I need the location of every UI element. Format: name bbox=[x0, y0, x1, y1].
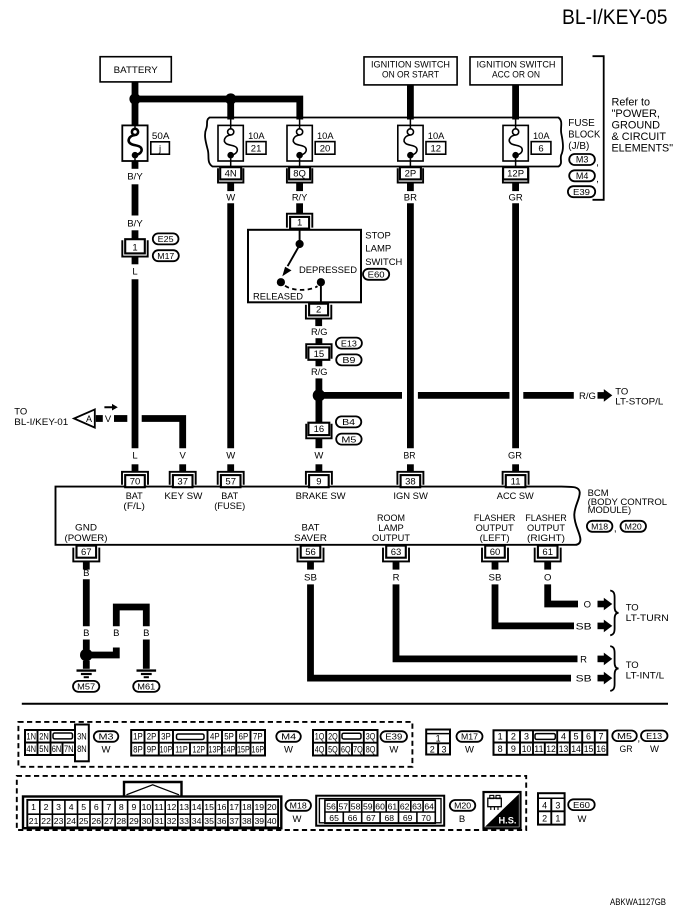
svg-text:GROUND: GROUND bbox=[612, 120, 661, 132]
wire ignition ON/START to fuse 12 bbox=[407, 85, 414, 120]
connector ref oval E39 index bbox=[381, 731, 408, 742]
connector 8Q fuse block output bbox=[287, 167, 312, 182]
connector ref oval B9 bbox=[336, 354, 361, 365]
svg-text:6: 6 bbox=[94, 802, 99, 812]
wire BR column bbox=[407, 203, 414, 448]
wire V dash segment bbox=[114, 415, 127, 422]
arrow SB to LT-TURN bbox=[598, 620, 613, 633]
svg-text:21: 21 bbox=[251, 144, 262, 155]
stop lamp DEPRESSED contact dot bbox=[317, 278, 325, 286]
wire B to ground dot bbox=[83, 640, 90, 650]
svg-text:24: 24 bbox=[66, 816, 76, 826]
fuse 10A 12 bbox=[398, 119, 423, 167]
svg-text:,: , bbox=[614, 524, 617, 535]
svg-text:63: 63 bbox=[412, 801, 422, 811]
svg-text:FUSE: FUSE bbox=[568, 117, 595, 129]
label R/Y under 8Q bbox=[292, 192, 308, 203]
svg-text:V: V bbox=[180, 451, 187, 462]
svg-text:W: W bbox=[578, 814, 587, 825]
svg-text:IGN SW: IGN SW bbox=[393, 491, 428, 501]
svg-text:LT-STOP/L: LT-STOP/L bbox=[615, 397, 663, 408]
svg-text:"POWER,: "POWER, bbox=[612, 108, 661, 120]
ground ref oval M57 bbox=[73, 681, 99, 692]
svg-text:30: 30 bbox=[142, 816, 152, 826]
wire W column bbox=[227, 203, 234, 448]
off-page arrow A triangle bbox=[74, 409, 95, 427]
svg-text:65: 65 bbox=[329, 813, 339, 823]
label SB at int arrow bbox=[576, 674, 592, 685]
svg-text:BRAKE SW: BRAKE SW bbox=[296, 491, 346, 501]
label STOP LAMP SWITCH bbox=[365, 230, 402, 267]
wire R output from 63 bbox=[396, 584, 578, 659]
label TO LT-INT/L bbox=[626, 660, 665, 682]
svg-text:W: W bbox=[314, 451, 323, 462]
label GR under 12P bbox=[508, 192, 522, 203]
svg-text:4: 4 bbox=[561, 732, 566, 742]
svg-text:14: 14 bbox=[571, 744, 581, 754]
ignition switch ACC/ON source box bbox=[470, 57, 562, 85]
svg-text:14P: 14P bbox=[223, 744, 236, 754]
svg-text:67: 67 bbox=[81, 547, 92, 558]
svg-text:LT-INT/L: LT-INT/L bbox=[626, 671, 665, 682]
svg-text:68: 68 bbox=[385, 813, 395, 823]
svg-text:(LEFT): (LEFT) bbox=[480, 533, 510, 543]
BCM terminal 70 bbox=[122, 464, 148, 487]
svg-text:L: L bbox=[132, 267, 137, 278]
wire ignition ACC/ON to fuse 6 bbox=[512, 85, 519, 120]
svg-text:11: 11 bbox=[154, 802, 164, 812]
svg-text:5Q: 5Q bbox=[328, 744, 338, 754]
svg-text:BR: BR bbox=[404, 192, 417, 203]
svg-text:1Q: 1Q bbox=[315, 732, 325, 742]
BCM terminal 57 bbox=[218, 464, 244, 487]
wire O output from 61 bbox=[548, 584, 578, 604]
svg-text:B/Y: B/Y bbox=[127, 219, 143, 230]
connector ref oval M4 bbox=[569, 170, 595, 181]
svg-text:59: 59 bbox=[363, 801, 373, 811]
svg-text:E13: E13 bbox=[341, 338, 357, 348]
svg-text:70: 70 bbox=[130, 477, 141, 488]
stop lamp contact dot pin1 bbox=[296, 240, 304, 248]
svg-text:15: 15 bbox=[204, 802, 214, 812]
svg-text:OUTPUT: OUTPUT bbox=[372, 533, 410, 543]
svg-text:1: 1 bbox=[436, 733, 441, 743]
label W under E13 bbox=[650, 744, 659, 755]
svg-text:13P: 13P bbox=[209, 744, 222, 754]
svg-text:69: 69 bbox=[403, 813, 413, 823]
BCM terminal 61 bbox=[535, 546, 561, 570]
BCM terminal 9 bbox=[306, 464, 332, 487]
svg-text:63: 63 bbox=[391, 547, 402, 558]
svg-text:60: 60 bbox=[490, 547, 501, 558]
wire junction to connector 16 bbox=[315, 395, 322, 423]
svg-text:M4: M4 bbox=[576, 171, 589, 181]
label 10A fuse6 bbox=[533, 131, 550, 142]
svg-text:21: 21 bbox=[29, 816, 39, 826]
dashed detail box row1 bbox=[18, 722, 412, 767]
label B/Y lower bbox=[127, 219, 143, 230]
H.S. view direction logo bbox=[484, 792, 521, 828]
svg-text:GR: GR bbox=[620, 744, 633, 755]
svg-text:E25: E25 bbox=[158, 234, 174, 244]
ground symbol M57 bbox=[77, 671, 97, 678]
svg-text:BAT: BAT bbox=[302, 523, 320, 533]
wire stub below 4N bbox=[227, 183, 234, 192]
svg-text:27: 27 bbox=[104, 816, 114, 826]
connector 15 E13/B9 bbox=[306, 344, 331, 360]
svg-text:34: 34 bbox=[192, 816, 202, 826]
label O under 61 bbox=[544, 572, 551, 583]
svg-text:4N: 4N bbox=[225, 168, 237, 179]
svg-text:25: 25 bbox=[79, 816, 89, 826]
svg-text:2Q: 2Q bbox=[328, 732, 338, 742]
svg-text:9: 9 bbox=[131, 802, 136, 812]
stop lamp switch pin 2 bbox=[306, 304, 331, 319]
svg-text:32: 32 bbox=[167, 816, 177, 826]
svg-text:W: W bbox=[293, 814, 302, 825]
label W at BCM term57 bbox=[226, 451, 235, 462]
label 50A bbox=[152, 131, 170, 142]
label V at BCM bbox=[180, 451, 187, 462]
connector ref oval M5 index bbox=[612, 731, 637, 742]
svg-text:STOP: STOP bbox=[365, 230, 391, 241]
svg-text:BL-I/KEY-05: BL-I/KEY-05 bbox=[562, 6, 668, 29]
label W under M4 bbox=[284, 745, 293, 756]
svg-text:TO: TO bbox=[626, 660, 639, 671]
wire R/G branch segment 1 bbox=[319, 392, 402, 399]
svg-text:A: A bbox=[86, 414, 92, 424]
svg-text:10P: 10P bbox=[160, 744, 173, 754]
svg-text:61: 61 bbox=[388, 801, 398, 811]
arrow O to LT-TURN bbox=[598, 598, 613, 611]
svg-text:31: 31 bbox=[154, 816, 164, 826]
label 10A fuse20 bbox=[317, 131, 334, 142]
svg-text:W: W bbox=[465, 745, 474, 756]
label GND (POWER) bbox=[65, 523, 108, 543]
wire dot to M57 ground bbox=[83, 661, 90, 669]
label FLASHER OUTPUT (RIGHT) bbox=[525, 513, 567, 543]
BCM terminal 67 bbox=[73, 546, 99, 570]
svg-text:M20: M20 bbox=[454, 801, 471, 811]
label GR at BCM bbox=[508, 451, 522, 462]
direction arrow over V bbox=[104, 404, 117, 411]
svg-text:28: 28 bbox=[117, 816, 127, 826]
svg-text:3: 3 bbox=[555, 800, 560, 810]
svg-text:,: , bbox=[596, 174, 599, 185]
svg-text:22: 22 bbox=[41, 816, 51, 826]
label W under M18 bbox=[293, 814, 302, 825]
svg-text:M61: M61 bbox=[137, 682, 155, 692]
svg-text:12P: 12P bbox=[507, 168, 524, 179]
stop lamp switch pin 1 bbox=[287, 214, 312, 229]
svg-text:4: 4 bbox=[69, 802, 74, 812]
BCM body control module box bbox=[56, 487, 581, 545]
label B mid center bbox=[113, 628, 119, 639]
svg-text:15P: 15P bbox=[237, 744, 250, 754]
label 10A fuse21 bbox=[248, 131, 265, 142]
svg-text:1: 1 bbox=[555, 814, 560, 824]
svg-text:3: 3 bbox=[524, 732, 529, 742]
label R at int arrow bbox=[580, 654, 587, 665]
svg-text:9: 9 bbox=[511, 744, 516, 754]
label BAT (FUSE) bbox=[214, 491, 245, 511]
svg-text:10A: 10A bbox=[428, 131, 445, 142]
wire junction A to fuse j bbox=[132, 99, 139, 125]
svg-text:O: O bbox=[584, 599, 591, 610]
svg-text:M3: M3 bbox=[576, 155, 589, 165]
label SB under 60 bbox=[489, 572, 502, 583]
svg-text:(J/B): (J/B) bbox=[568, 140, 589, 152]
connector ref oval E60 switch bbox=[363, 269, 389, 280]
label KEY SW bbox=[164, 491, 202, 501]
fuse 50A j bbox=[122, 119, 147, 167]
comma after M5 index bbox=[637, 734, 640, 745]
wire into connector 1 E25 bbox=[132, 230, 139, 239]
label R/G at arrow bbox=[579, 391, 596, 402]
fuse 10A 21 bbox=[218, 119, 243, 167]
stop lamp RELEASED contact dot bbox=[277, 278, 285, 286]
svg-text:8Q: 8Q bbox=[366, 744, 376, 754]
svg-text:R/G: R/G bbox=[311, 327, 328, 338]
svg-text:M17: M17 bbox=[461, 732, 478, 742]
connector 12P fuse block output bbox=[503, 167, 528, 182]
label TO BL-I/KEY-01 bbox=[14, 407, 68, 428]
svg-text:B: B bbox=[143, 628, 149, 639]
wire into junction bbox=[315, 378, 322, 392]
svg-text:ROOM: ROOM bbox=[377, 513, 405, 523]
fuse 20 id box bbox=[315, 142, 335, 155]
svg-text:3Q: 3Q bbox=[366, 732, 376, 742]
svg-text:LT-TURN: LT-TURN bbox=[626, 613, 669, 624]
svg-text:3: 3 bbox=[441, 744, 446, 754]
svg-text:39: 39 bbox=[255, 816, 265, 826]
svg-text:1: 1 bbox=[132, 242, 137, 253]
ignition switch ON/START source box bbox=[364, 57, 457, 85]
svg-text:W: W bbox=[284, 745, 293, 756]
svg-text:OUTPUT: OUTPUT bbox=[476, 523, 514, 533]
svg-text:10: 10 bbox=[522, 744, 532, 754]
svg-text:SB: SB bbox=[489, 572, 502, 583]
svg-text:5N: 5N bbox=[39, 744, 49, 754]
svg-text:ACC OR ON: ACC OR ON bbox=[492, 70, 540, 81]
label L at BCM bbox=[132, 451, 137, 462]
comma after M18 oval bbox=[614, 524, 617, 535]
fuse block J/B outline bbox=[205, 118, 563, 167]
arrow R to LT-INT/L bbox=[598, 653, 613, 666]
document code bbox=[610, 897, 666, 907]
label W under M3 bbox=[102, 745, 111, 756]
svg-text:B9: B9 bbox=[342, 355, 355, 365]
svg-text:50A: 50A bbox=[152, 131, 170, 142]
svg-text:GND: GND bbox=[75, 523, 97, 533]
svg-text:GR: GR bbox=[508, 192, 522, 203]
connector view M17 grid bbox=[426, 730, 450, 755]
svg-text:5: 5 bbox=[573, 732, 578, 742]
svg-text:3N: 3N bbox=[77, 732, 87, 742]
comma after M4 bbox=[596, 174, 599, 185]
connector ref oval E13 mid bbox=[336, 338, 362, 349]
svg-text:R: R bbox=[393, 572, 400, 583]
svg-text:LAMP: LAMP bbox=[365, 244, 391, 255]
svg-text:67: 67 bbox=[366, 813, 376, 823]
svg-text:RELEASED: RELEASED bbox=[253, 291, 303, 301]
node junction dot B bbox=[225, 93, 236, 104]
svg-text:M5: M5 bbox=[341, 434, 356, 444]
svg-text:1P: 1P bbox=[133, 732, 143, 742]
svg-text:20: 20 bbox=[320, 144, 331, 155]
svg-text:W: W bbox=[226, 451, 235, 462]
stop lamp switch box bbox=[248, 230, 361, 302]
wire SB output from 60 bbox=[495, 584, 574, 626]
label B mid right bbox=[143, 628, 149, 639]
connector ref oval B4 bbox=[336, 416, 361, 427]
connector ref oval E39 bbox=[568, 186, 595, 197]
BCM terminal 37 bbox=[170, 464, 196, 487]
svg-text:2P: 2P bbox=[147, 732, 157, 742]
svg-text:58: 58 bbox=[351, 801, 361, 811]
svg-text:j: j bbox=[158, 144, 161, 155]
arrow to LT-STOP/L bbox=[598, 389, 613, 402]
wire stub below 12P bbox=[512, 183, 519, 192]
svg-text:& CIRCUIT: & CIRCUIT bbox=[612, 131, 667, 143]
wire R/Y into stop lamp switch bbox=[296, 203, 303, 214]
svg-text:38: 38 bbox=[405, 477, 416, 488]
wire below connector 1 bbox=[132, 257, 139, 265]
label BCM (BODY CONTROL MODULE) bbox=[588, 488, 668, 515]
label W at BCM term9 bbox=[314, 451, 323, 462]
connector ref oval M3 bbox=[569, 154, 595, 165]
svg-text:B/Y: B/Y bbox=[127, 171, 143, 182]
label B/Y upper bbox=[127, 171, 143, 182]
svg-text:B: B bbox=[459, 814, 465, 825]
svg-text:ON OR START: ON OR START bbox=[382, 70, 439, 81]
label TO LT-TURN bbox=[626, 602, 669, 623]
svg-text:35: 35 bbox=[204, 816, 214, 826]
svg-text:KEY SW: KEY SW bbox=[164, 491, 202, 501]
connector ref oval E60 index bbox=[568, 799, 595, 810]
wire GR column bbox=[512, 203, 519, 448]
wire B/Y segment bbox=[132, 184, 139, 215]
svg-text:SB: SB bbox=[304, 572, 317, 583]
svg-text:4: 4 bbox=[542, 800, 547, 810]
connector ref oval M17 index bbox=[457, 731, 483, 742]
stop lamp moving contact arm bbox=[282, 248, 298, 277]
svg-text:60: 60 bbox=[375, 801, 385, 811]
wire below connector 15 bbox=[315, 360, 322, 367]
svg-text:1: 1 bbox=[297, 218, 302, 229]
brace LT-INT/L group bbox=[610, 646, 618, 691]
svg-text:8: 8 bbox=[119, 802, 124, 812]
svg-text:,: , bbox=[596, 158, 599, 169]
ground ref oval M61 bbox=[133, 681, 159, 692]
bus wire battery feed bbox=[135, 99, 300, 120]
fuse 6 id box bbox=[531, 142, 551, 155]
connector ref oval M4 index bbox=[276, 731, 301, 742]
label SB at turn arrow bbox=[576, 621, 592, 632]
arrow SB to LT-INT/L bbox=[598, 672, 613, 685]
svg-text:FLASHER: FLASHER bbox=[474, 513, 516, 523]
svg-text:10A: 10A bbox=[317, 131, 334, 142]
title bbox=[562, 6, 668, 29]
svg-text:M5: M5 bbox=[617, 731, 632, 741]
svg-text:O: O bbox=[544, 572, 551, 583]
wire V elbow to terminal 37 bbox=[142, 419, 183, 449]
connector view M4 grid bbox=[131, 730, 265, 756]
connector view E39 grid bbox=[313, 730, 378, 756]
svg-text:4Q: 4Q bbox=[315, 744, 325, 754]
svg-text:7Q: 7Q bbox=[353, 744, 363, 754]
svg-text:6: 6 bbox=[586, 732, 591, 742]
note refer to power ground circuit elements bbox=[612, 97, 674, 155]
label L upper bbox=[132, 267, 137, 278]
connector ref oval E13 index bbox=[641, 731, 668, 742]
separator rule bbox=[22, 703, 668, 705]
wire R/G branch segment 2 bbox=[418, 392, 510, 399]
BCM terminal 63 bbox=[383, 546, 409, 570]
wire L column long bbox=[132, 279, 139, 448]
svg-text:FLASHER: FLASHER bbox=[525, 513, 567, 523]
svg-text:2: 2 bbox=[430, 744, 435, 754]
connector view M20 housing bbox=[316, 796, 444, 826]
brace LT-TURN group bbox=[610, 591, 618, 636]
svg-text:BAT: BAT bbox=[221, 491, 238, 501]
svg-text:1N: 1N bbox=[26, 732, 36, 742]
svg-text:38: 38 bbox=[242, 816, 252, 826]
stop lamp wire pin2 internal bbox=[320, 286, 322, 304]
svg-text:4N: 4N bbox=[26, 744, 36, 754]
node R/G junction dot bbox=[313, 389, 325, 401]
connector view M18 housing bbox=[23, 782, 281, 828]
BCM terminal 11 bbox=[503, 464, 529, 487]
svg-text:M20: M20 bbox=[625, 522, 642, 532]
BCM terminal 38 bbox=[397, 464, 423, 487]
wire stub below 8Q bbox=[296, 183, 303, 192]
svg-text:TO: TO bbox=[626, 602, 639, 613]
svg-text:23: 23 bbox=[54, 816, 64, 826]
svg-text:BL-I/KEY-01: BL-I/KEY-01 bbox=[14, 417, 68, 428]
svg-text:2N: 2N bbox=[39, 732, 49, 742]
svg-text:70: 70 bbox=[421, 813, 431, 823]
svg-text:11P: 11P bbox=[175, 744, 188, 754]
stop lamp dashed travel arc bbox=[285, 286, 318, 290]
svg-text:(POWER): (POWER) bbox=[65, 533, 108, 543]
svg-text:20: 20 bbox=[267, 802, 277, 812]
svg-text:7N: 7N bbox=[64, 744, 74, 754]
label W under E60 bbox=[578, 814, 587, 825]
wire below connector 16 bbox=[315, 439, 322, 448]
wire riser loop over bbox=[116, 607, 146, 626]
svg-text:12: 12 bbox=[546, 744, 556, 754]
svg-text:16: 16 bbox=[596, 744, 606, 754]
label IGN SW bbox=[393, 491, 428, 501]
svg-text:57: 57 bbox=[225, 477, 236, 488]
svg-text:(FUSE): (FUSE) bbox=[214, 501, 245, 511]
wire branch dot to riser bbox=[86, 648, 116, 656]
svg-text:SB: SB bbox=[576, 674, 592, 685]
svg-text:5: 5 bbox=[81, 802, 86, 812]
svg-text:GR: GR bbox=[508, 451, 522, 462]
label BR at BCM bbox=[404, 451, 416, 462]
svg-text:13: 13 bbox=[179, 802, 189, 812]
svg-text:9P: 9P bbox=[147, 744, 157, 754]
wire B from 67 bbox=[83, 579, 90, 626]
svg-text:R/G: R/G bbox=[579, 391, 596, 402]
label R/G upper bbox=[311, 327, 328, 338]
svg-text:56: 56 bbox=[305, 547, 316, 558]
svg-text:(RIGHT): (RIGHT) bbox=[527, 533, 565, 543]
label R under 63 bbox=[393, 572, 400, 583]
svg-text:10A: 10A bbox=[248, 131, 265, 142]
